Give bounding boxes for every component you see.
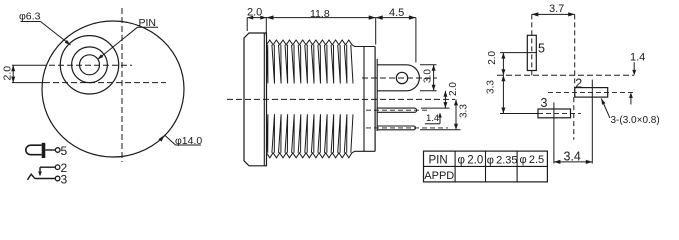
terminal 5 — [55, 148, 60, 153]
svg-text:3.7: 3.7 — [549, 3, 564, 15]
flange inner edge line — [263, 33, 265, 166]
flange plate — [244, 33, 267, 166]
dimension 3.4 — [554, 161, 592, 163]
svg-text:3: 3 — [61, 173, 68, 187]
pad 2 — [575, 88, 608, 98]
terminal 2 — [55, 165, 60, 170]
svg-text:2.0: 2.0 — [2, 66, 14, 81]
pin 3 line with contact caret — [27, 174, 34, 180]
pad 2 vertical ext for 3.4 — [591, 80, 593, 164]
svg-text:1.4: 1.4 — [426, 113, 439, 124]
switch contact pin 2 — [40, 166, 55, 168]
dimension 2.0 flange width — [246, 18, 248, 31]
svg-text:3.3: 3.3 — [459, 104, 470, 118]
threaded barrel — [267, 40, 354, 158]
svg-text:φ 2.0: φ 2.0 — [458, 155, 484, 167]
outer barrel circle — [60, 36, 118, 94]
switch arm arrow — [38, 172, 42, 177]
pin horizontal centerline solid ext — [12, 64, 40, 66]
pin B (switch terminal) — [377, 126, 416, 130]
pad 3 — [538, 109, 571, 118]
dimension 2.0 tab to pin A — [421, 107, 450, 109]
svg-text:φ 2.5: φ 2.5 — [520, 154, 545, 166]
svg-text:3.0: 3.0 — [423, 69, 434, 83]
ext line pad5 center — [500, 52, 537, 54]
svg-text:3.3: 3.3 — [486, 80, 497, 94]
pad 2 centerline dashed — [548, 91, 633, 93]
center pin circle — [80, 55, 100, 75]
body horizontal centerline dashed — [44, 82, 166, 84]
pin horizontal centerline dashed — [40, 64, 132, 66]
pad 5 — [527, 35, 536, 70]
pad 3 centerline dashed — [538, 112, 581, 114]
dimension 3.3 centerline to pin B — [420, 129, 461, 131]
pad 3 vertical ext for 3.4 — [553, 103, 555, 164]
middle circle phi6.3 bore — [72, 47, 108, 83]
pin A (center pin terminal) — [377, 108, 417, 112]
svg-text:φ14.0: φ14.0 — [175, 135, 202, 147]
tab hole — [396, 72, 407, 83]
solder tab with hole — [377, 65, 419, 91]
wire to terminal 5 — [45, 149, 55, 151]
svg-text:5: 5 — [61, 144, 68, 158]
ext line pad3 center — [500, 113, 538, 115]
main centerline middle view — [227, 98, 455, 100]
svg-text:φ6.3: φ6.3 — [19, 10, 41, 22]
dimension 3.0 tab height — [420, 64, 437, 66]
svg-text:3.4: 3.4 — [564, 150, 581, 164]
dimension 4.5 — [415, 18, 417, 63]
svg-text:1.4: 1.4 — [630, 51, 645, 63]
switch arm vertical — [39, 167, 41, 173]
label phi14.0 with leader — [159, 135, 165, 142]
vertical centerline — [121, 8, 123, 162]
body circle phi14 — [42, 21, 184, 157]
pad 5 vertical centerline dashed — [531, 14, 533, 76]
pin B centerline dashed — [366, 127, 448, 129]
svg-text:5: 5 — [538, 42, 545, 56]
pin 5 barrel symbol — [26, 145, 42, 155]
svg-text:3-(3.0×0.8): 3-(3.0×0.8) — [611, 115, 660, 126]
svg-text:4.5: 4.5 — [389, 7, 404, 19]
dashed below pad2 left — [573, 97, 575, 140]
dimension 3.3 right view — [502, 75, 504, 113]
pin A centerline dashed — [366, 109, 428, 111]
terminal 3 — [55, 176, 60, 181]
dimension 11.8 thread length — [375, 18, 377, 45]
label 3-(3.0x0.8) with leader — [601, 99, 610, 118]
svg-text:APPD: APPD — [424, 170, 454, 182]
svg-text:11.8: 11.8 — [310, 8, 330, 20]
svg-text:2: 2 — [575, 76, 582, 90]
dimension 3.7 — [574, 14, 576, 97]
dimension 2.0 left view — [12, 65, 14, 82]
PIN size table — [424, 151, 548, 182]
svg-text:3: 3 — [541, 96, 548, 110]
main horizontal centerline right view — [497, 74, 634, 76]
barrel end / body — [352, 45, 375, 47]
body horizontal centerline solid ext — [12, 82, 44, 84]
svg-text:2.0: 2.0 — [448, 82, 459, 96]
svg-text:φ 2.35: φ 2.35 — [487, 154, 518, 166]
tab hole centerline dashed — [362, 77, 437, 79]
svg-text:PIN: PIN — [429, 154, 448, 166]
svg-text:2.0: 2.0 — [487, 50, 498, 64]
dimension 2.0 right view — [502, 53, 504, 76]
svg-text:2.0: 2.0 — [247, 7, 262, 19]
